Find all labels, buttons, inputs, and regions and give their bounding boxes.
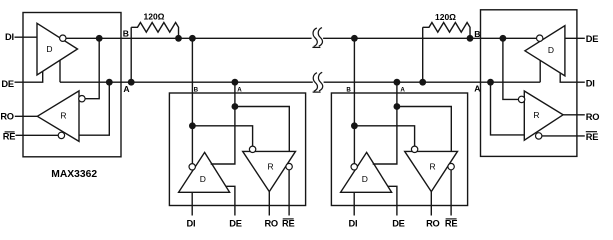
svg-text:A: A (400, 86, 405, 93)
wire RO lead (U3) (430, 192, 432, 216)
svg-text:DE: DE (586, 34, 598, 44)
svg-text:R: R (60, 110, 66, 120)
wire A drop to U3 (373, 82, 397, 164)
wire receiver B input (U4) (503, 38, 519, 99)
svg-text:B: B (474, 29, 480, 39)
wire B bus right segment (323, 37, 536, 39)
svg-text:D: D (46, 44, 52, 54)
svg-text:RE: RE (3, 132, 15, 142)
wire A bus left segment (60, 81, 313, 83)
wire receiver A input (U4) (491, 82, 525, 135)
svg-text:RE: RE (445, 219, 457, 229)
junction on B at U1 receiver drop (96, 35, 103, 42)
resistor R2 120 ohm termination (423, 22, 470, 82)
svg-text:RE: RE (586, 132, 598, 142)
wire A branch to U2 receiver (235, 107, 289, 152)
wire DI lead (U3) (353, 192, 355, 215)
resistor R1 120 ohm termination (131, 22, 178, 82)
inverting output bubble (U2 driver) (189, 164, 195, 170)
wire RE lead (U2) (288, 170, 290, 216)
wire RE lead (U3) (450, 170, 452, 216)
driver D (U4) (525, 26, 565, 76)
svg-text:B: B (346, 86, 351, 93)
enable bubble (U3 receiver) (448, 163, 454, 169)
svg-text:R: R (268, 161, 274, 171)
junction on A at U4 receiver drop (487, 79, 494, 86)
junction A drop branch (U2) (232, 103, 239, 110)
wire B branch to U3 receiver (354, 126, 414, 146)
wire driver A output tap (U1) (59, 60, 61, 82)
svg-text:R: R (533, 110, 539, 120)
driver D (U3) (341, 152, 392, 192)
junction on B at U4 receiver drop (500, 35, 507, 42)
wire A branch to U3 receiver (397, 107, 451, 152)
svg-text:120Ω: 120Ω (144, 11, 165, 21)
wire DI input (U4) (560, 73, 585, 82)
svg-text:DE: DE (1, 79, 13, 89)
enable bubble (U2 receiver) (286, 163, 292, 169)
wire A drop to U2 (211, 82, 235, 164)
svg-text:RO: RO (0, 112, 13, 122)
svg-text:RO: RO (264, 219, 277, 229)
junction R1 to A (128, 79, 135, 86)
wire RO output (U4) (563, 114, 585, 116)
junction A drop branch (U3) (394, 103, 401, 110)
wire DE enable (U4) (565, 37, 585, 39)
wire DI input (U1) (15, 36, 38, 38)
wire RO lead (U2) (268, 192, 270, 216)
junction on A at U1 receiver drop (106, 79, 113, 86)
svg-text:DI: DI (348, 219, 357, 229)
inverting output bubble (U4 driver) (537, 35, 543, 41)
svg-text:B: B (194, 86, 199, 93)
junction R2 to B (467, 35, 474, 42)
svg-text:D: D (200, 174, 206, 184)
svg-text:A: A (237, 86, 242, 93)
svg-text:120Ω: 120Ω (435, 12, 456, 22)
wire DE lead (U3) (388, 186, 397, 215)
transceiver box U3 (middle right) (331, 93, 467, 206)
wire receiver A input (U1) (79, 82, 109, 135)
junction B drop branch (U2) (189, 122, 196, 129)
receiver R (U1) (37, 91, 79, 141)
junction R1 to B (175, 35, 182, 42)
svg-text:RO: RO (586, 112, 599, 122)
receiver R (U4) (524, 91, 563, 140)
wire B drop to U3 (353, 38, 355, 163)
transceiver box U2 (middle left) (169, 93, 305, 206)
wire receiver B input (U1) (85, 38, 99, 98)
break squiggle on A bus (313, 72, 323, 92)
wire DE lead (U2) (226, 186, 235, 215)
enable bubble (U4 receiver) (536, 133, 542, 139)
wire DI lead (U2) (191, 192, 193, 215)
svg-text:D: D (362, 174, 368, 184)
inverting input bubble (U1 receiver) (79, 96, 85, 102)
inverting input bubble (U4 receiver) (518, 96, 524, 102)
receiver R (U3) (405, 151, 458, 191)
inverting input bubble (U3 receiver) (411, 146, 417, 152)
svg-text:DE: DE (392, 219, 404, 229)
svg-text:RE: RE (282, 219, 294, 229)
wire RE enable (U1) (16, 134, 59, 136)
svg-text:B: B (123, 29, 129, 39)
svg-text:R: R (430, 161, 436, 171)
break squiggle on B bus (312, 28, 322, 48)
junction B drop branch (U3) (351, 122, 358, 129)
junction B bus to U2 (189, 35, 196, 42)
wire A bus right segment (324, 81, 541, 83)
svg-text:DI: DI (5, 32, 14, 42)
wire DE enable (U1) (15, 71, 43, 82)
svg-text:DE: DE (229, 219, 241, 229)
wire B branch to U2 receiver (192, 126, 252, 146)
receiver R (U2) (243, 151, 296, 191)
wire driver A output tap (U4) (539, 60, 541, 82)
enable bubble (U1 receiver) (58, 132, 64, 138)
inverting output bubble (U1 driver) (60, 35, 66, 41)
inverting input bubble (U2 receiver) (249, 146, 255, 152)
junction R2 to A (419, 79, 426, 86)
svg-text:DI: DI (586, 78, 595, 88)
junction B bus to U3 (351, 35, 358, 42)
wire B drop to U2 (191, 38, 193, 163)
junction A bus to U3 (394, 79, 401, 86)
transceiver box U4 (right MAX3362) (481, 10, 577, 157)
driver D (U1) (37, 23, 78, 75)
svg-text:A: A (123, 84, 129, 94)
svg-text:D: D (548, 45, 554, 55)
svg-text:RO: RO (426, 219, 439, 229)
inverting output bubble (U3 driver) (351, 164, 357, 170)
wire RE enable (U4) (542, 135, 585, 137)
transceiver box U1 (left MAX3362) (23, 13, 121, 157)
driver D (U2) (179, 152, 230, 192)
wire RO output (U1) (15, 115, 38, 117)
svg-text:DI: DI (186, 219, 195, 229)
wire B bus left segment (66, 37, 312, 39)
svg-text:A: A (474, 84, 480, 94)
svg-text:MAX3362: MAX3362 (51, 169, 97, 180)
junction A bus to U2 (232, 79, 239, 86)
